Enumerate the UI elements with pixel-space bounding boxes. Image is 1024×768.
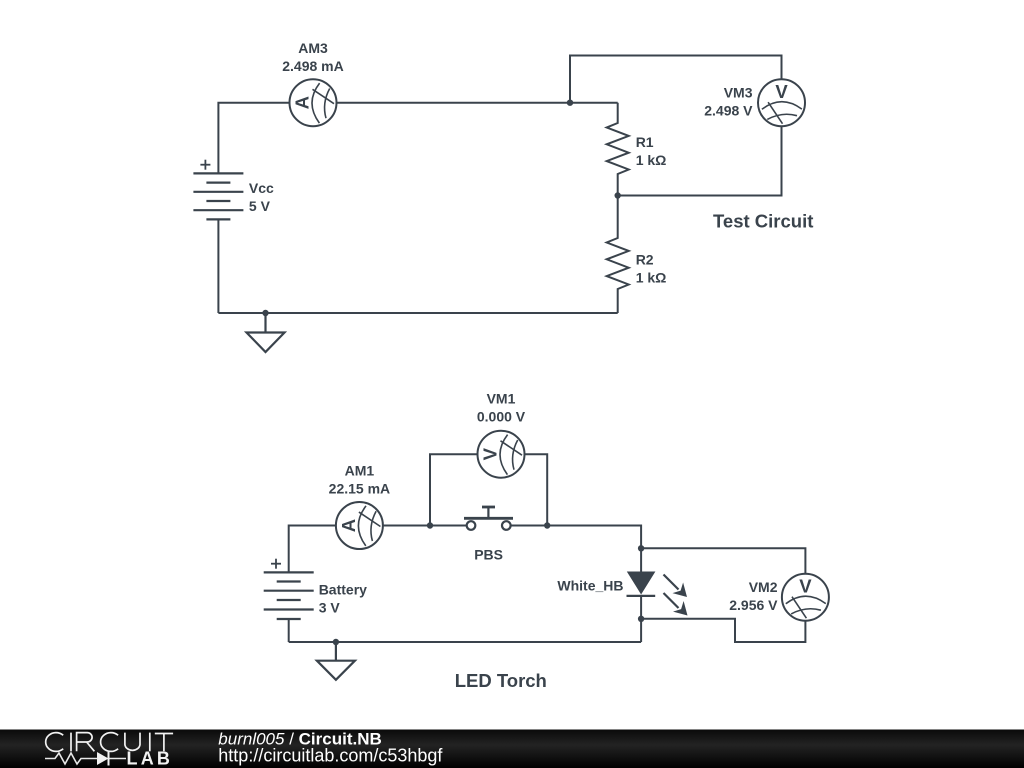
voltmeter VM2 [782,574,829,621]
LED light arrow 1 [664,575,688,598]
switch PBS [464,507,513,530]
svg-text:V: V [480,447,501,460]
svg-text:LED Torch: LED Torch [455,670,547,691]
wire: VM2 bottom return to LED cathode [641,619,805,642]
ammeter AM1 [336,502,383,549]
svg-text:1 kΩ: 1 kΩ [636,270,667,286]
svg-text:VM1: VM1 [487,390,516,406]
voltmeter VM3 [758,79,805,126]
resistor R1 [607,103,629,196]
diode LED White_HB [629,573,654,593]
wire: bottom rail of LED Torch [289,641,641,643]
svg-text:2.498 V: 2.498 V [704,103,753,119]
svg-text:LAB: LAB [127,749,174,768]
svg-text:AM1: AM1 [345,463,375,479]
svg-text:5 V: 5 V [249,198,271,214]
svg-text:A: A [292,96,313,109]
voltmeter VM1 [478,431,525,478]
resistor R2 [607,196,629,314]
wire: VM1 left branch [430,454,478,525]
wire: battery 2 top lead to AM1 [289,526,336,573]
svg-text:2.956 V: 2.956 V [729,597,778,613]
wire: battery Vcc bottom lead [217,219,219,313]
wire: junction up and across to VM3 top [570,56,782,103]
wire: VM3 bottom down and left to mid node [618,126,782,195]
svg-text:http://circuitlab.com/c53hbgf: http://circuitlab.com/c53hbgf [218,745,443,765]
svg-text:PBS: PBS [474,547,503,563]
node: ground junction LED Torch [333,639,339,645]
svg-text:White_HB: White_HB [557,578,623,594]
svg-text:R1: R1 [636,134,654,150]
svg-text:Vcc: Vcc [249,180,274,196]
node: junction LED anode / VM2 top [638,545,644,551]
svg-text:VM3: VM3 [724,85,753,101]
wire: VM1 right branch [525,454,548,525]
battery Battery (3V) [264,572,314,619]
wire: LED anode junction to VM2 top [641,548,805,573]
ammeter AM3 [290,79,337,126]
svg-text:1 kΩ: 1 kΩ [636,152,667,168]
logo resistor squiggle [45,753,97,764]
wire: AM1 right to PBS left [383,525,467,527]
svg-text:R2: R2 [636,252,654,268]
node: junction LED cathode / VM2 return [638,616,644,622]
logo diode [97,752,109,765]
wire: PBS right to LED top corner [511,526,641,573]
battery 2 plus sign [271,559,281,569]
svg-text:AM3: AM3 [298,40,328,56]
svg-text:Test Circuit: Test Circuit [713,211,813,232]
svg-text:Battery: Battery [319,581,367,597]
svg-text:0.000 V: 0.000 V [477,408,526,424]
node: ground junction on bottom rail [262,310,268,316]
wire: battery Vcc top to AM3 left [218,103,289,174]
node: junction between R1 and R2 [615,192,621,198]
svg-text:A: A [338,519,359,532]
battery Vcc [193,173,243,219]
svg-text:VM2: VM2 [749,579,778,595]
node: junction VM1 right tap [544,522,550,528]
ground (LED Torch) [317,642,355,680]
LED light arrow 2 [664,593,688,616]
svg-text:3 V: 3 V [319,599,341,615]
node: junction top rail to VM3 branch [567,100,573,106]
wire: AM3 right to R1 top corner [337,102,618,104]
svg-text:22.15 mA: 22.15 mA [329,481,390,497]
svg-text:2.498 mA: 2.498 mA [282,58,343,74]
svg-text:V: V [799,576,812,597]
svg-text:V: V [775,81,788,102]
node: junction VM1 left tap [427,522,433,528]
battery Vcc plus sign [200,160,210,170]
wire: battery 2 bottom lead [288,619,290,642]
CircuitLab logo word CIRCUIT (drawn thin letters) [46,733,173,752]
ground (Test Circuit) [247,313,285,352]
logo wire after diode [109,758,127,760]
wire: LED cathode lead down [640,596,642,642]
wire: bottom rail of Test Circuit [218,312,617,314]
